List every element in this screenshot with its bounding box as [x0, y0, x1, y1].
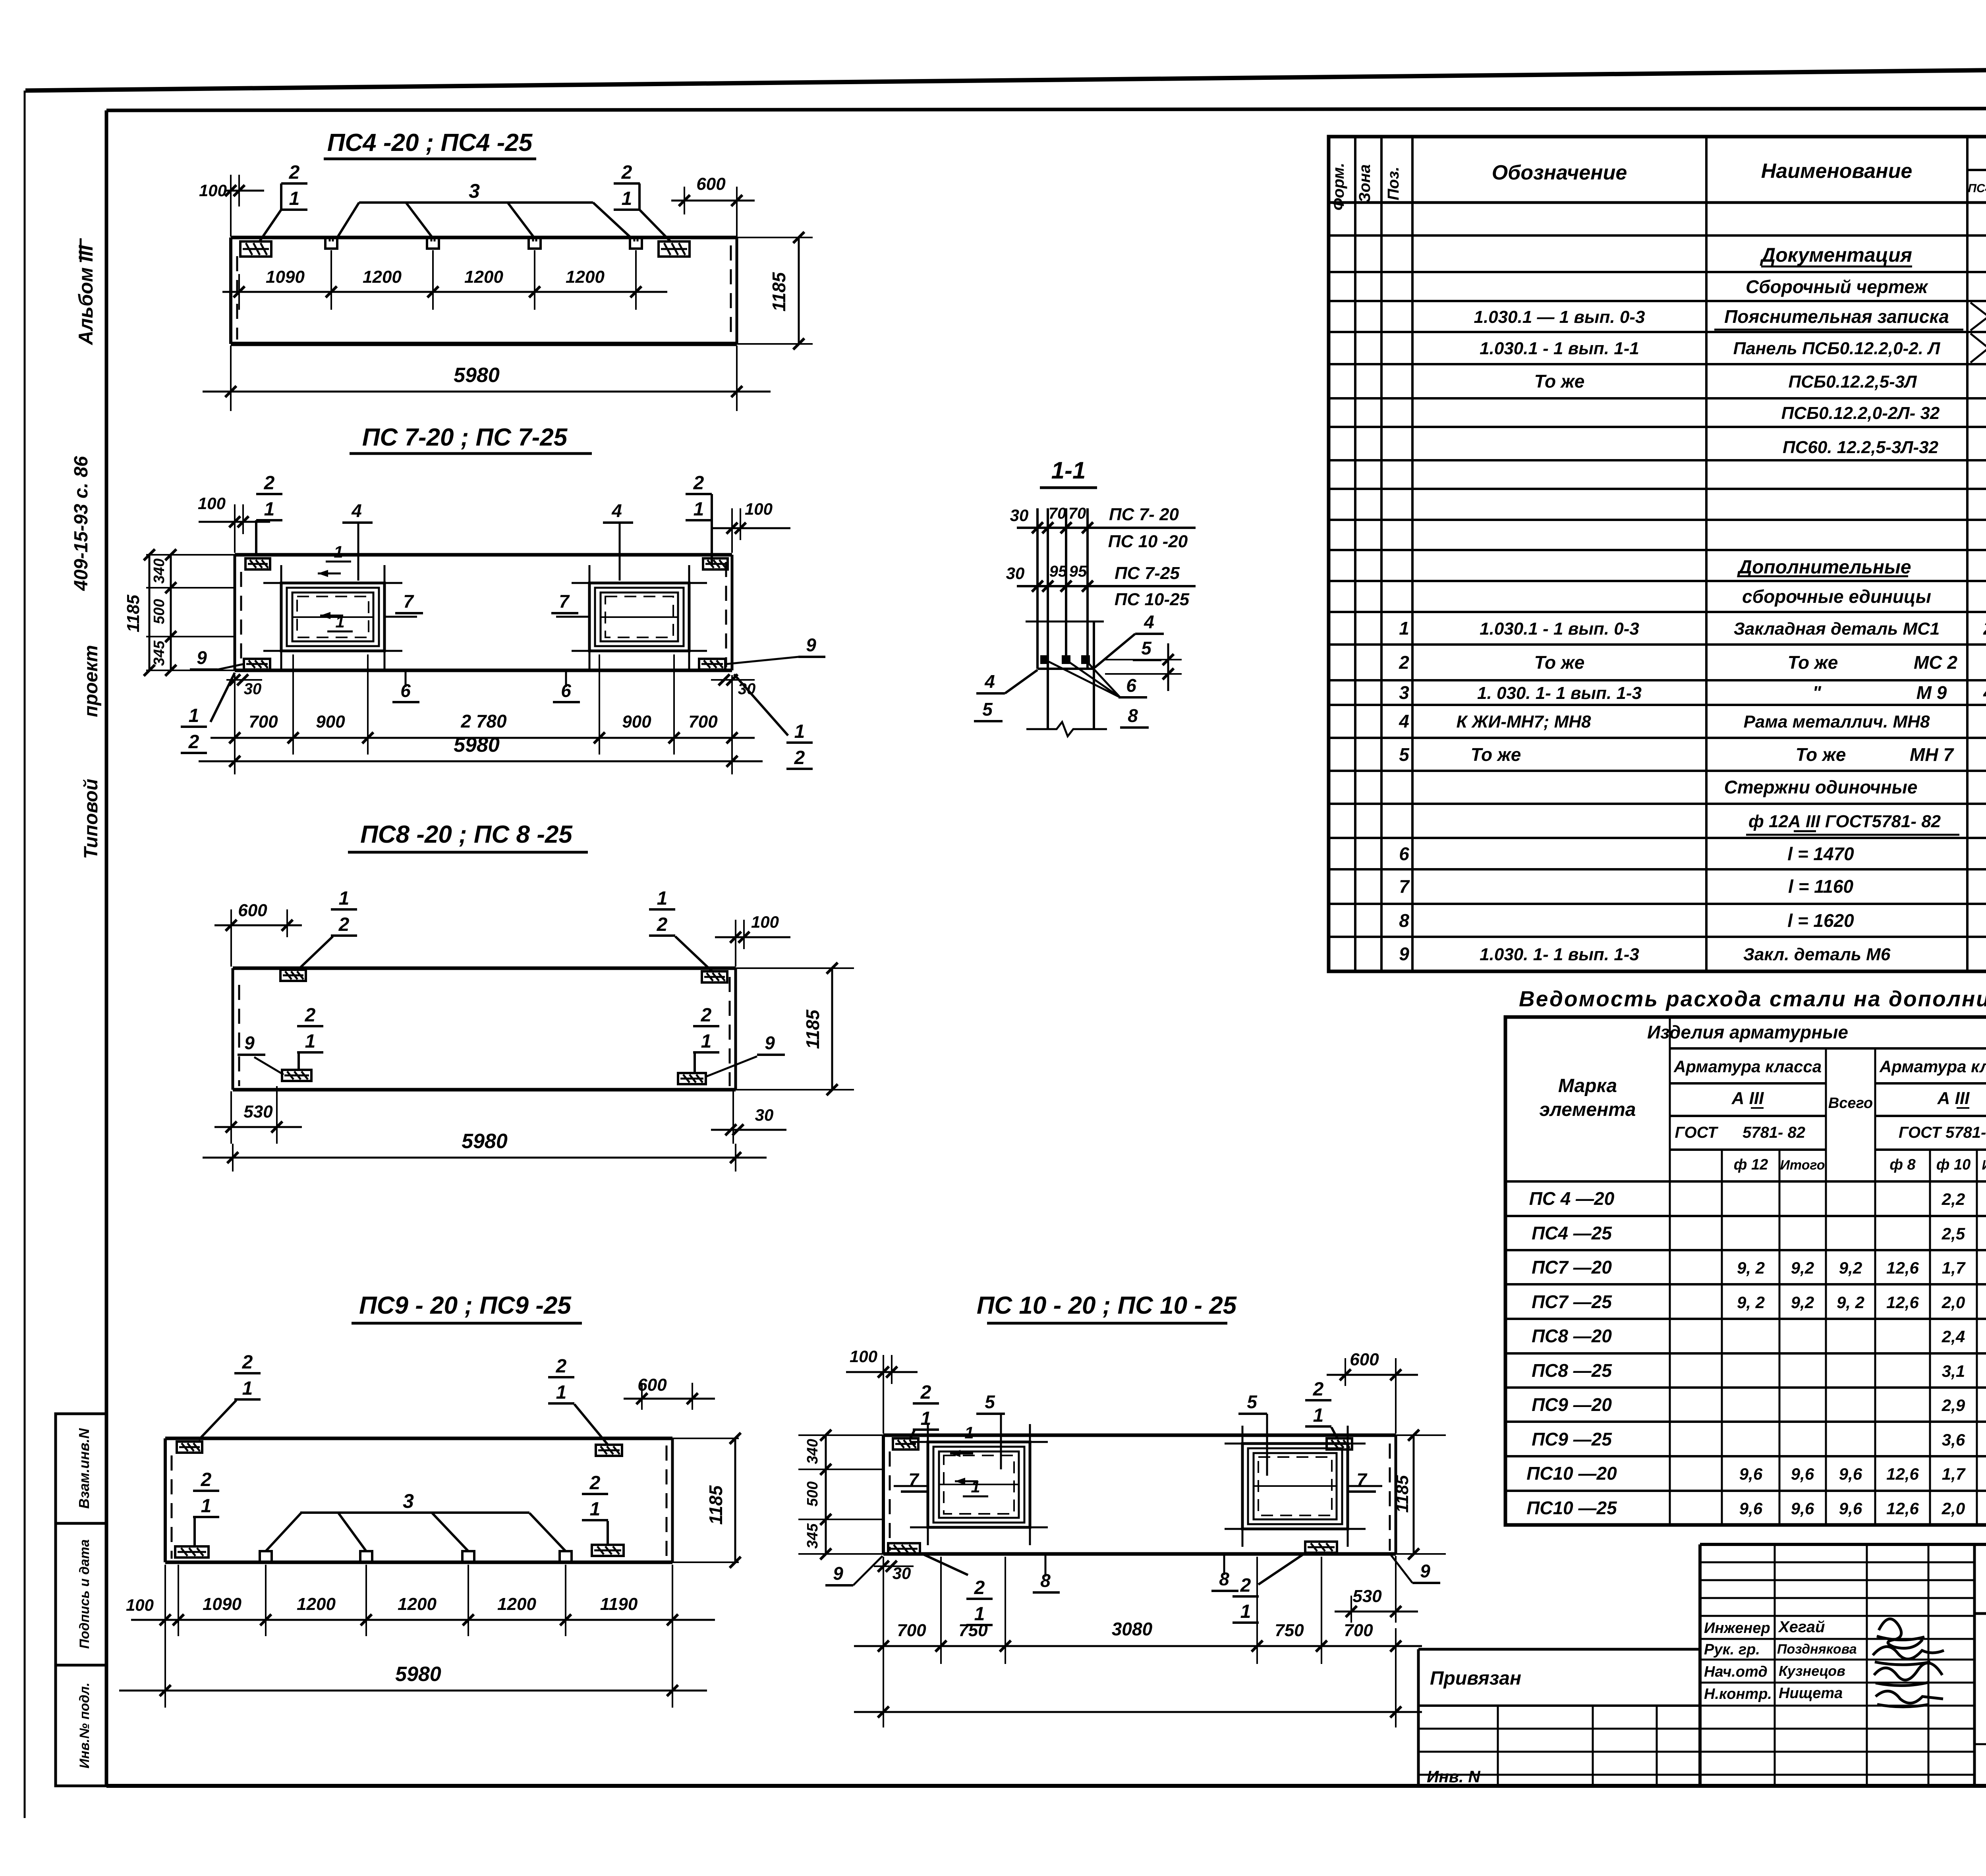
svg-text:2: 2 — [188, 731, 199, 753]
svg-text:ПС8 —20: ПС8 —20 — [1532, 1326, 1612, 1346]
PS9 dim 1185 right — [734, 1438, 736, 1562]
svg-text:ПС 7-25: ПС 7-25 — [1115, 564, 1180, 583]
PS7 window left — [281, 583, 384, 651]
svg-text:ПС 7- 20: ПС 7- 20 — [1109, 505, 1179, 524]
svg-text:ПС 10 - 20 ; ПС 10 - 25: ПС 10 - 20 ; ПС 10 - 25 — [977, 1292, 1237, 1319]
svg-text:1,7: 1,7 — [1942, 1465, 1966, 1483]
svg-text:1200: 1200 — [363, 267, 402, 287]
svg-text:2,0: 2,0 — [1942, 1499, 1965, 1518]
section right small dim — [1105, 659, 1182, 660]
svg-text:Зона: Зона — [1356, 164, 1374, 203]
svg-text:ПС7 —20: ПС7 —20 — [1532, 1257, 1612, 1278]
svg-text:ПС4 —25: ПС4 —25 — [1532, 1223, 1612, 1243]
svg-text:3: 3 — [1399, 682, 1409, 703]
svg-text:1: 1 — [556, 1382, 567, 1403]
svg-text:1: 1 — [264, 499, 275, 520]
svg-text:5781- 82: 5781- 82 — [1743, 1124, 1805, 1141]
svg-text:К ЖИ-МН7; МН8: К ЖИ-МН7; МН8 — [1456, 712, 1591, 731]
svg-text:ПСБ0.12.2,5-3Л: ПСБ0.12.2,5-3Л — [1789, 372, 1917, 392]
svg-text:100: 100 — [198, 494, 226, 513]
PS9 hooks bottom — [260, 1551, 272, 1562]
svg-text:8: 8 — [1399, 910, 1409, 931]
svg-text:l = 1620: l = 1620 — [1787, 910, 1854, 931]
svg-text:9,2: 9,2 — [1791, 1293, 1814, 1312]
panel PS4 outline — [231, 236, 737, 239]
svg-text:ПС10 —25: ПС10 —25 — [1526, 1498, 1617, 1518]
margin box Inv.N podl. — [56, 1665, 106, 1786]
svg-text:9,6: 9,6 — [1791, 1499, 1814, 1518]
svg-text:700: 700 — [249, 712, 278, 731]
svg-text:9,6: 9,6 — [1839, 1465, 1862, 1483]
svg-text:1090: 1090 — [203, 1594, 241, 1614]
svg-text:l = 1160: l = 1160 — [1788, 876, 1854, 897]
svg-text:Хегай: Хегай — [1778, 1618, 1825, 1636]
svg-text:345: 345 — [804, 1523, 821, 1548]
svg-text:МС 2: МС 2 — [1914, 652, 1957, 673]
specification table grid — [1329, 137, 1986, 971]
svg-text:530: 530 — [243, 1102, 273, 1121]
svg-text:9,6: 9,6 — [1739, 1465, 1763, 1483]
svg-text:4: 4 — [1144, 612, 1154, 632]
PS10 bottom plates — [888, 1543, 920, 1554]
svg-text:9,6: 9,6 — [1739, 1499, 1763, 1518]
PS7 top plates — [245, 558, 270, 569]
X marks — [1971, 303, 1986, 330]
svg-text:9: 9 — [833, 1563, 843, 1584]
svg-text:2: 2 — [1240, 1575, 1251, 1596]
svg-text:2: 2 — [264, 473, 275, 494]
svg-text:1190: 1190 — [600, 1594, 638, 1614]
section wall lines — [1036, 508, 1039, 669]
svg-text:2: 2 — [974, 1577, 985, 1598]
svg-text:5980: 5980 — [454, 364, 500, 387]
PS8 top plates — [280, 970, 306, 981]
svg-text:ПС 4 —20: ПС 4 —20 — [1529, 1188, 1615, 1209]
svg-text:1: 1 — [305, 1031, 316, 1052]
svg-text:2: 2 — [201, 1469, 212, 1490]
svg-text:345: 345 — [151, 640, 168, 666]
svg-text:2,0: 2,0 — [1942, 1293, 1965, 1312]
PS7 window right — [589, 583, 689, 651]
svg-text:ПС9 - 20 ; ПС9 -25: ПС9 - 20 ; ПС9 -25 — [359, 1292, 572, 1319]
PS4 dim 1185 right — [798, 237, 800, 344]
svg-text:6: 6 — [1126, 675, 1136, 696]
svg-text:2: 2 — [589, 1473, 601, 1494]
svg-text:9: 9 — [765, 1033, 775, 1053]
svg-text:Обозначение: Обозначение — [1492, 161, 1627, 184]
PS10 dims 700/750/3080 — [854, 1645, 1422, 1647]
svg-text:Рама металлич. МН8: Рама металлич. МН8 — [1744, 712, 1930, 731]
PS4 leader label 3 — [359, 201, 593, 204]
svg-text:Изделия арматурные: Изделия арматурные — [1647, 1022, 1848, 1042]
svg-text:1090: 1090 — [266, 267, 305, 287]
svg-text:2: 2 — [693, 473, 704, 494]
svg-text:600: 600 — [238, 901, 267, 920]
svg-text:Наименование: Наименование — [1761, 160, 1913, 183]
scanned sheet left edge — [24, 91, 26, 1818]
svg-text:ПС10 —20: ПС10 —20 — [1526, 1463, 1617, 1484]
svg-text:ф 12: ф 12 — [1734, 1156, 1768, 1173]
svg-text:340: 340 — [151, 558, 168, 583]
PS4 lifting hooks — [325, 237, 337, 249]
svg-text:1185: 1185 — [769, 272, 789, 311]
signatures — [1877, 1619, 1924, 1648]
svg-text:То же: То же — [1534, 371, 1585, 392]
svg-text:3,6: 3,6 — [1942, 1430, 1965, 1449]
PS10 dims left 340/500/345 — [798, 1434, 883, 1436]
svg-text:1: 1 — [334, 542, 343, 561]
svg-text:": " — [1812, 682, 1822, 703]
svg-text:Поз.: Поз. — [1385, 167, 1402, 201]
svg-text:1. 030. 1- 1 вып. 1-3: 1. 030. 1- 1 вып. 1-3 — [1477, 683, 1642, 703]
svg-text:ПС4-20: ПС4-20 — [1968, 182, 1986, 195]
svg-text:Итого: Итого — [1780, 1158, 1825, 1173]
svg-text:2: 2 — [794, 747, 805, 768]
svg-text:Привязан: Привязан — [1430, 1668, 1521, 1689]
svg-text:проект: проект — [81, 645, 102, 717]
svg-text:5: 5 — [1399, 744, 1410, 765]
svg-text:1.030. 1- 1 вып. 1-3: 1.030. 1- 1 вып. 1-3 — [1480, 945, 1639, 964]
svg-text:Форм.: Форм. — [1330, 163, 1347, 210]
svg-text:5980: 5980 — [462, 1130, 508, 1153]
svg-text:ГОСТ: ГОСТ — [1675, 1124, 1719, 1141]
panel PS9 outline — [165, 1437, 672, 1440]
svg-text:1: 1 — [289, 188, 300, 209]
PS4 embedded plate right — [659, 241, 690, 257]
svg-text:сборочные единицы: сборочные единицы — [1742, 586, 1931, 607]
svg-text:Взам.инв.N: Взам.инв.N — [76, 1428, 92, 1509]
svg-text:2,2: 2,2 — [1942, 1190, 1965, 1208]
title block left columns — [1774, 1544, 1776, 1786]
svg-text:4: 4 — [1399, 711, 1409, 731]
svg-text:12,6: 12,6 — [1886, 1293, 1919, 1312]
svg-text:1: 1 — [590, 1499, 601, 1520]
PS4 hook dims 1090/1200 — [222, 291, 667, 293]
svg-text:1: 1 — [921, 1408, 931, 1429]
svg-text:ПС9 —25: ПС9 —25 — [1532, 1429, 1612, 1449]
svg-text:То же: То же — [1796, 744, 1846, 765]
svg-text:1: 1 — [971, 1477, 980, 1496]
svg-text:5: 5 — [982, 699, 993, 720]
margin box Vzam.inv.N — [56, 1414, 106, 1523]
PS8 dim 5980 — [203, 1157, 767, 1159]
svg-text:1: 1 — [1399, 618, 1409, 639]
svg-text:3080: 3080 — [1112, 1619, 1153, 1639]
svg-text:100: 100 — [199, 181, 227, 200]
svg-text:750: 750 — [958, 1621, 988, 1640]
svg-text:1: 1 — [657, 888, 668, 909]
svg-text:95: 95 — [1049, 563, 1067, 580]
svg-text:4: 4 — [984, 671, 995, 692]
svg-text:Подпись и дата: Подпись и дата — [77, 1539, 92, 1649]
svg-text:2: 2 — [920, 1382, 931, 1403]
svg-text:ф 12А III ГОСТ5781- 82: ф 12А III ГОСТ5781- 82 — [1748, 812, 1941, 831]
svg-text:2: 2 — [1313, 1379, 1324, 1400]
svg-text:То же: То же — [1471, 744, 1521, 765]
svg-text:1-1: 1-1 — [1051, 457, 1086, 484]
svg-text:2,5: 2,5 — [1942, 1224, 1965, 1243]
PS9 dim 5980 — [119, 1690, 707, 1692]
svg-text:4: 4 — [611, 500, 622, 521]
svg-text:500: 500 — [804, 1481, 821, 1506]
svg-text:409-15-93 с. 86: 409-15-93 с. 86 — [71, 456, 92, 591]
svg-text:5: 5 — [1141, 638, 1152, 658]
svg-text:Панель ПСБ0.12.2,0-2. Л: Панель ПСБ0.12.2,0-2. Л — [1733, 339, 1941, 358]
svg-text:9,2: 9,2 — [1791, 1258, 1814, 1277]
svg-text:Н.контр.: Н.контр. — [1704, 1686, 1772, 1702]
svg-text:7: 7 — [403, 591, 414, 612]
svg-text:МН 7: МН 7 — [1910, 744, 1954, 765]
svg-text:2: 2 — [338, 914, 350, 935]
svg-text:5980: 5980 — [454, 733, 500, 757]
svg-text:9: 9 — [1399, 944, 1409, 964]
svg-text:ПСБ0.12.2,0-2Л- 32: ПСБ0.12.2,0-2Л- 32 — [1781, 403, 1940, 423]
svg-text:1185: 1185 — [802, 1009, 823, 1049]
svg-text:Пояснительная записка: Пояснительная записка — [1724, 306, 1949, 327]
svg-text:Арматура класса: Арматура класса — [1673, 1057, 1822, 1076]
svg-text:Документация: Документация — [1760, 244, 1912, 266]
PS9 top plates — [177, 1442, 202, 1453]
svg-text:l = 1470: l = 1470 — [1787, 843, 1854, 864]
svg-text:1: 1 — [694, 499, 704, 520]
svg-text:100: 100 — [745, 500, 773, 518]
svg-text:Альбом III: Альбом III — [75, 245, 97, 345]
PS7 dim row 700/900/2780 — [211, 737, 755, 739]
svg-text:9, 2: 9, 2 — [1837, 1293, 1864, 1312]
svg-text:4: 4 — [1983, 682, 1986, 703]
svg-text:500: 500 — [151, 599, 168, 624]
svg-text:То же: То же — [1534, 652, 1585, 673]
svg-text:2,4: 2,4 — [1942, 1327, 1965, 1346]
svg-text:1: 1 — [189, 705, 199, 726]
svg-text:1.030.1 — 1 вып. 0-3: 1.030.1 — 1 вып. 0-3 — [1474, 307, 1645, 327]
svg-text:Закл. деталь М6: Закл. деталь М6 — [1743, 945, 1891, 964]
svg-text:1.030.1 - 1 вып. 1-1: 1.030.1 - 1 вып. 1-1 — [1480, 339, 1639, 358]
svg-text:2: 2 — [621, 162, 632, 183]
svg-text:5: 5 — [1247, 1392, 1258, 1412]
svg-text:2: 2 — [657, 914, 668, 935]
svg-text:1: 1 — [339, 888, 350, 909]
svg-text:Нищета: Нищета — [1779, 1685, 1843, 1702]
svg-text:Инв.№ подл.: Инв.№ подл. — [77, 1683, 92, 1769]
PS7 dims left 340/500/345 — [146, 554, 235, 556]
svg-text:600: 600 — [696, 174, 726, 194]
svg-text:А III: А III — [1937, 1089, 1970, 1108]
vedomost table grid — [1505, 1017, 1986, 1525]
svg-text:Закладная деталь МС1: Закладная деталь МС1 — [1734, 619, 1940, 639]
PS8 dim 1185 right — [736, 967, 854, 969]
svg-text:ф 10: ф 10 — [1936, 1156, 1971, 1173]
svg-text:30: 30 — [244, 680, 262, 698]
svg-text:1: 1 — [201, 1496, 212, 1517]
svg-text:2: 2 — [701, 1005, 712, 1026]
svg-text:1200: 1200 — [566, 267, 605, 287]
svg-text:Стержни одиночные: Стержни одиночные — [1724, 777, 1918, 797]
svg-text:700: 700 — [688, 712, 718, 731]
svg-text:750: 750 — [1275, 1621, 1304, 1640]
svg-text:1.030.1 - 1 вып. 0-3: 1.030.1 - 1 вып. 0-3 — [1480, 619, 1639, 639]
title block outer — [1700, 1543, 1986, 1546]
svg-text:Сборочный чертеж: Сборочный чертеж — [1746, 276, 1928, 297]
svg-text:70: 70 — [1049, 505, 1066, 522]
panel PS7 outline — [235, 553, 732, 557]
svg-text:ф 8: ф 8 — [1889, 1156, 1916, 1173]
svg-text:2: 2 — [1983, 618, 1986, 639]
svg-text:элемента: элемента — [1540, 1099, 1636, 1120]
svg-text:1: 1 — [794, 721, 805, 742]
svg-text:ПС 10-25: ПС 10-25 — [1115, 590, 1190, 609]
svg-text:700: 700 — [1344, 1621, 1373, 1640]
svg-text:1185: 1185 — [1393, 1475, 1412, 1513]
PS10 dim 1185 right — [1396, 1434, 1446, 1436]
svg-text:7: 7 — [559, 591, 570, 612]
svg-text:То же: То же — [1788, 652, 1838, 673]
svg-text:1200: 1200 — [464, 267, 503, 287]
svg-text:2: 2 — [556, 1356, 567, 1377]
svg-text:9, 2: 9, 2 — [1737, 1258, 1765, 1277]
svg-text:Типовой: Типовой — [81, 779, 102, 859]
svg-text:Позднякова: Позднякова — [1777, 1642, 1857, 1657]
svg-text:3: 3 — [469, 180, 480, 202]
svg-text:5: 5 — [985, 1392, 995, 1412]
svg-text:2: 2 — [1399, 652, 1409, 673]
svg-text:Всего: Всего — [1828, 1095, 1873, 1112]
svg-text:7: 7 — [1399, 876, 1410, 897]
svg-text:ПС 7-20 ; ПС 7-25: ПС 7-20 ; ПС 7-25 — [362, 424, 568, 451]
svg-text:9: 9 — [1420, 1561, 1430, 1581]
svg-text:30: 30 — [755, 1106, 774, 1124]
svg-text:30: 30 — [1006, 564, 1025, 583]
svg-text:ПС 10 -20: ПС 10 -20 — [1108, 532, 1188, 551]
svg-text:Инв. N: Инв. N — [1427, 1767, 1481, 1786]
svg-text:100: 100 — [126, 1596, 154, 1614]
margin box Podpis i data — [56, 1523, 106, 1665]
panel PS8 outline — [233, 967, 736, 970]
svg-text:Итого: Итого — [1982, 1158, 1986, 1173]
PS9 dims 100/1090/1200 — [131, 1619, 715, 1621]
svg-text:1: 1 — [964, 1423, 974, 1442]
svg-text:1: 1 — [701, 1031, 712, 1052]
svg-text:Инженер: Инженер — [1704, 1620, 1770, 1637]
svg-text:12,6: 12,6 — [1886, 1465, 1919, 1483]
svg-text:9,6: 9,6 — [1839, 1499, 1862, 1518]
svg-text:95: 95 — [1069, 563, 1087, 580]
svg-text:2 780: 2 780 — [460, 711, 507, 731]
svg-text:ПС4 -20 ; ПС4 -25: ПС4 -20 ; ПС4 -25 — [327, 129, 533, 156]
svg-text:ПС8 —25: ПС8 —25 — [1532, 1360, 1612, 1381]
svg-text:1,7: 1,7 — [1942, 1258, 1966, 1277]
svg-text:2: 2 — [242, 1352, 253, 1373]
svg-text:30: 30 — [1010, 506, 1029, 525]
svg-text:ПС7 —25: ПС7 —25 — [1532, 1291, 1612, 1312]
svg-text:9, 2: 9, 2 — [1737, 1293, 1765, 1312]
PS8 bottom plates — [282, 1070, 311, 1081]
PS4 dim 5980 — [203, 391, 771, 393]
svg-text:Кузнецов: Кузнецов — [1779, 1663, 1845, 1679]
svg-text:2,9: 2,9 — [1942, 1396, 1965, 1415]
svg-text:3,1: 3,1 — [1942, 1362, 1965, 1380]
svg-text:Арматура класса: Арматура класса — [1879, 1057, 1986, 1076]
svg-text:12,6: 12,6 — [1886, 1499, 1919, 1518]
svg-text:1200: 1200 — [398, 1594, 437, 1614]
svg-text:А III: А III — [1731, 1089, 1764, 1108]
scanned sheet top edge — [25, 65, 1986, 91]
svg-text:ПС60. 12.2,5-3Л-32: ПС60. 12.2,5-3Л-32 — [1783, 438, 1939, 457]
svg-text:12,6: 12,6 — [1886, 1258, 1919, 1277]
svg-text:1185: 1185 — [124, 594, 143, 632]
svg-text:900: 900 — [316, 712, 345, 731]
PS10 windows — [928, 1442, 1030, 1527]
svg-text:Нач.отд: Нач.отд — [1704, 1664, 1768, 1680]
svg-text:600: 600 — [1350, 1350, 1379, 1369]
svg-text:9: 9 — [197, 647, 207, 668]
svg-text:8: 8 — [1128, 705, 1138, 726]
svg-text:ПС9 —20: ПС9 —20 — [1532, 1394, 1612, 1415]
svg-text:530: 530 — [1352, 1586, 1382, 1606]
svg-text:1: 1 — [622, 188, 632, 209]
svg-text:2: 2 — [289, 162, 300, 183]
svg-text:6: 6 — [1399, 843, 1409, 864]
PS10 top plates — [893, 1438, 918, 1449]
PS4 embedded plate left — [240, 241, 271, 257]
svg-text:1185: 1185 — [705, 1485, 726, 1525]
svg-text:1200: 1200 — [497, 1594, 536, 1614]
privyazan block — [1418, 1648, 1700, 1651]
PS10 bottom dim line — [854, 1711, 1422, 1713]
svg-text:700: 700 — [897, 1621, 926, 1640]
PS7 dim 5980 — [199, 760, 763, 762]
svg-text:Марка: Марка — [1558, 1075, 1617, 1096]
svg-text:340: 340 — [804, 1439, 821, 1464]
section anchor dots — [1040, 655, 1049, 664]
svg-text:900: 900 — [622, 712, 651, 731]
svg-text:Ведомость расхода стали на: Ведомость расхода стали на дополнительны… — [1519, 986, 1986, 1011]
svg-text:2: 2 — [305, 1005, 316, 1026]
svg-text:3: 3 — [403, 1490, 414, 1512]
svg-text:1200: 1200 — [297, 1594, 336, 1614]
svg-text:ПС8 -20 ; ПС 8 -25: ПС8 -20 ; ПС 8 -25 — [360, 821, 573, 848]
PS9 bottom plates — [175, 1546, 209, 1558]
svg-text:1: 1 — [1313, 1405, 1324, 1426]
svg-text:9,2: 9,2 — [1839, 1258, 1862, 1277]
svg-text:1: 1 — [1240, 1601, 1251, 1622]
section bottom break line — [1026, 722, 1107, 736]
svg-text:Рук. гр.: Рук. гр. — [1704, 1641, 1760, 1658]
panel PS10 outline — [883, 1434, 1396, 1437]
PS9 leader 3 — [300, 1511, 529, 1514]
svg-text:9,6: 9,6 — [1791, 1465, 1814, 1483]
svg-text:100: 100 — [850, 1347, 877, 1366]
svg-text:4: 4 — [351, 500, 362, 521]
svg-text:9: 9 — [806, 635, 816, 655]
section dim line PS7-20 — [1017, 527, 1196, 529]
svg-text:ГОСТ 5781- 82: ГОСТ 5781- 82 — [1899, 1124, 1986, 1141]
svg-text:9: 9 — [244, 1033, 255, 1053]
svg-text:1: 1 — [242, 1378, 253, 1399]
section dim line PS7-25 — [1017, 585, 1196, 587]
svg-text:5980: 5980 — [395, 1663, 441, 1686]
svg-text:100: 100 — [751, 913, 779, 931]
drawing frame — [106, 108, 1986, 110]
svg-text:Дополнительные: Дополнительные — [1737, 557, 1911, 578]
svg-text:М 9: М 9 — [1916, 682, 1947, 703]
PS7 bottom plates — [244, 659, 270, 670]
svg-text:70: 70 — [1068, 505, 1086, 522]
